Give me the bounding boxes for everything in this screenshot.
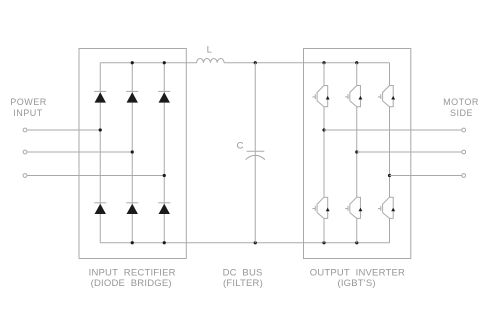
node input L3 tap <box>163 174 166 177</box>
label L <box>207 45 213 56</box>
node bottom bus / leg 2 <box>131 241 134 244</box>
svg-text:(FILTER): (FILTER) <box>223 278 263 289</box>
node top bus / inverter leg 2 <box>355 61 358 64</box>
wire rectifier leg 1 <box>99 63 101 243</box>
label SIDE <box>450 108 473 118</box>
caption (IGBT'S) <box>337 278 375 289</box>
node bottom bus / inverter leg 2 <box>355 241 358 244</box>
svg-text:DC BUS: DC BUS <box>223 267 263 278</box>
input terminal L2 <box>23 150 27 154</box>
node bottom bus / inverter leg 1 <box>322 241 325 244</box>
svg-text:(IGBT'S): (IGBT'S) <box>337 278 375 289</box>
node input L2 tap <box>131 150 134 153</box>
wire inverter leg 2 lower <box>356 218 358 242</box>
wire DC- bus <box>100 242 389 244</box>
diode D4 <box>94 203 106 214</box>
diode D2 <box>126 91 138 102</box>
wire inverter leg 1 lower <box>323 218 325 242</box>
wire inverter leg 3 upper <box>389 63 391 86</box>
wire output phase W <box>390 175 462 177</box>
svg-text:OUTPUT INVERTER: OUTPUT INVERTER <box>310 267 405 278</box>
IGBT Q4 with freewheel diode <box>312 197 329 218</box>
capacitor C <box>246 151 265 159</box>
input terminal L1 <box>23 128 27 132</box>
wire inverter leg 3 middle <box>389 107 391 198</box>
wire input L1 <box>27 129 100 131</box>
output inverter box <box>304 49 411 259</box>
inductor L <box>197 59 225 63</box>
svg-text:POWER: POWER <box>10 97 47 107</box>
wire inverter leg 1 middle <box>323 107 325 198</box>
wire inverter leg 2 upper <box>356 63 358 86</box>
node output phase W tap <box>388 174 391 177</box>
svg-text:(DIODE BRIDGE): (DIODE BRIDGE) <box>91 278 172 289</box>
node input L1 tap <box>99 128 102 131</box>
input rectifier box <box>79 49 186 259</box>
wire output phase V <box>357 151 462 153</box>
caption OUTPUT INVERTER <box>310 267 405 278</box>
IGBT Q6 with freewheel diode <box>378 197 395 218</box>
wire DC+ bus (rectifier to inductor) <box>100 62 196 64</box>
IGBT Q1 with freewheel diode <box>312 86 329 107</box>
output terminal V <box>462 150 466 154</box>
svg-text:L: L <box>207 45 213 56</box>
wire input L3 <box>27 175 164 177</box>
IGBT Q2 with freewheel diode <box>345 86 362 107</box>
node output phase V tap <box>355 150 358 153</box>
svg-text:SIDE: SIDE <box>450 108 473 118</box>
wire rectifier leg 3 <box>163 63 165 243</box>
output terminal W <box>462 174 466 178</box>
input terminal L3 <box>23 174 27 178</box>
node top bus / leg 3 <box>163 61 166 64</box>
label POWER <box>10 97 47 107</box>
wire capacitor branch <box>254 63 256 243</box>
IGBT Q5 with freewheel diode <box>345 197 362 218</box>
node top bus / leg 2 <box>131 61 134 64</box>
IGBT Q3 with freewheel diode <box>378 86 395 107</box>
svg-text:MOTOR: MOTOR <box>443 97 479 107</box>
node bottom bus / capacitor <box>254 241 257 244</box>
svg-text:INPUT: INPUT <box>13 108 43 118</box>
diode D1 <box>94 91 106 102</box>
output terminal U <box>462 128 466 132</box>
wire DC+ bus (inductor to inverter) <box>224 62 389 64</box>
label MOTOR <box>443 97 479 107</box>
wire inverter leg 3 lower <box>389 218 391 242</box>
label C <box>237 140 244 151</box>
wire inverter leg 2 middle <box>356 107 358 198</box>
caption INPUT RECTIFIER <box>89 267 176 278</box>
caption (FILTER) <box>223 278 263 289</box>
wire input L2 <box>27 151 132 153</box>
diode D3 <box>158 91 170 102</box>
svg-text:INPUT RECTIFIER: INPUT RECTIFIER <box>89 267 176 278</box>
caption (DIODE BRIDGE) <box>91 278 172 289</box>
svg-text:C: C <box>237 140 244 151</box>
wire inverter leg 1 upper <box>323 63 325 86</box>
node top bus / capacitor <box>254 61 257 64</box>
diode D5 <box>126 203 138 214</box>
node top bus / inverter leg 1 <box>322 61 325 64</box>
wire output phase U <box>324 129 462 131</box>
wire rectifier leg 2 <box>131 63 133 243</box>
label INPUT <box>13 108 43 118</box>
node bottom bus / leg 3 <box>163 241 166 244</box>
caption DC BUS <box>223 267 263 278</box>
node output phase U tap <box>322 128 325 131</box>
diode D6 <box>158 203 170 214</box>
